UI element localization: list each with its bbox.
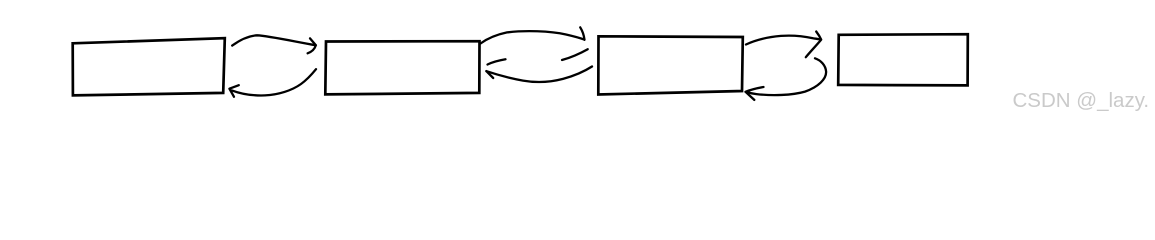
arrow next 2 to 3 head [562,27,588,60]
arrow next 1 to 2 head [308,38,316,53]
arrow next 3 to 4 curve [746,36,820,45]
arrow prev 2 to 1 curve [232,69,316,95]
arrow prev 2 to 1 head [229,85,238,97]
arrow prev 3 to 2 curve [487,67,593,82]
arrow next 2 to 3 curve [481,31,585,43]
svg-text:CSDN @_lazy.: CSDN @_lazy. [1013,89,1150,112]
node box 4 [838,34,968,85]
arrow next 1 to 2 curve [232,35,315,45]
arrow prev 4 to 3 loop curve [747,58,826,95]
node box 1 [73,38,225,95]
arrow next 3 to 4 head [806,32,821,58]
node box 2 [325,41,479,94]
node box 3 [598,36,743,94]
arrow prev 4 to 3 head [746,87,764,100]
arrow prev 3 to 2 head [486,59,505,78]
